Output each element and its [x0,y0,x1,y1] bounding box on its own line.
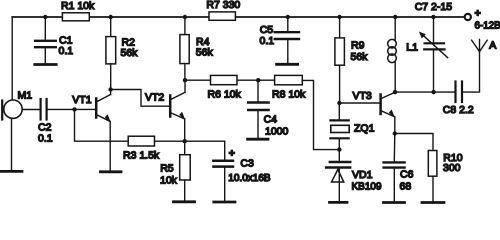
power terminal [465,8,500,32]
ground (C5) [277,63,298,66]
svg-text:0.1: 0.1 [260,35,275,47]
resistor R7 [206,0,240,20]
wire left feed to microphone [11,17,13,100]
resistor R10 [395,134,463,202]
ground (R5) [174,200,195,203]
resistor R4 [180,17,214,80]
node tank/VT3 collector junction [393,90,397,94]
wire microphone to ground [11,119,13,171]
node junction C1/rail [43,15,47,19]
resistor R1 [61,0,95,21]
svg-text:VD1: VD1 [352,169,373,181]
node emitter/C6/R10 junction [393,131,397,135]
antenna A [472,39,497,51]
svg-text:0.1: 0.1 [59,45,74,57]
svg-text:68: 68 [400,181,412,193]
transistor VT1 [72,90,111,122]
capacitor C3 [213,141,270,201]
capacitor C8 [443,82,474,117]
svg-text:R3 1.5k: R3 1.5k [123,150,160,162]
wire top supply rail [12,16,464,18]
wire VT3 emitter down [394,117,396,134]
wire VT1 collector to VT2 base [111,90,169,107]
ground (C4) [248,138,268,141]
svg-text:R1 10k: R1 10k [61,0,95,12]
svg-text:+: + [475,8,481,20]
node junction L1/rail [393,15,397,19]
microphone M1 [2,90,32,120]
svg-text:R9: R9 [351,40,365,52]
capacitor C1 [35,17,73,63]
svg-text:R7 330: R7 330 [206,0,240,11]
node VT3 base junction [337,101,341,105]
svg-text:M1: M1 [18,90,33,102]
resistor R8 [272,75,306,100]
capacitor C4 [248,80,288,138]
svg-text:R5: R5 [160,163,174,175]
wire microphone output [22,109,39,111]
svg-text:A: A [489,40,496,52]
ground (C1) [35,63,56,66]
varicap diode VD1 KB109 [326,150,382,201]
svg-text:ZQ1: ZQ1 [354,123,375,135]
ground (R10) [422,201,444,204]
svg-text:VT3: VT3 [353,90,372,102]
svg-text:R8 10k: R8 10k [272,89,306,101]
capacitor C5 [260,17,300,63]
wire C2 to VT1 base [48,108,95,110]
svg-text:300: 300 [443,162,461,174]
svg-text:VT1: VT1 [72,94,91,106]
svg-text:R6 10k: R6 10k [208,89,242,101]
node junction R9/rail [337,15,341,19]
svg-text:10.0x16B: 10.0x16B [228,173,271,184]
node VT1 collector junction [108,87,112,91]
wire VT2 collector node to R6 [185,79,211,81]
transistor VT2 [145,82,185,120]
svg-text:VT2: VT2 [145,92,164,104]
svg-text:KB109: KB109 [352,182,382,193]
wire VT3 base [339,102,379,104]
wire VT1 emitter to ground [109,122,111,171]
svg-text:56k: 56k [196,47,214,59]
transistor VT3 [353,90,396,118]
node VT1 base junction [72,107,76,111]
svg-text:L1: L1 [406,42,418,54]
svg-text:56k: 56k [351,51,369,63]
wire R6 to R8 [237,79,275,81]
crystal ZQ1 [330,103,374,150]
capacitor C2 [38,99,53,145]
resistor R6 [208,75,242,100]
wire C8 to antenna [463,52,480,93]
resistor R5 [160,141,190,200]
wire R3 to emitter node and C3 [155,140,225,142]
node varicap junction [337,147,341,151]
resistor R2 [106,17,138,90]
wire tank bottom [395,91,454,93]
node emitter/R3/R5 junction [183,139,187,143]
ground (C3) [214,201,235,204]
svg-text:C6: C6 [400,169,414,181]
svg-text:1000: 1000 [265,126,289,138]
node junction R2/rail [109,15,113,19]
node junction C5/rail [286,15,290,19]
resistor R9 [335,17,368,103]
node junction C4 [256,78,260,82]
inductor L1 [388,17,418,92]
resistor R3 [123,136,160,161]
node junction C7/rail [431,15,435,19]
svg-text:6-12B: 6-12B [475,21,500,32]
svg-text:C4: C4 [264,114,278,126]
node VT2 collector junction [183,78,187,82]
ground (M1) [1,170,22,173]
svg-text:10k: 10k [160,175,178,187]
svg-text:C8 2.2: C8 2.2 [443,104,474,116]
wire VT2 emitter down [184,119,186,141]
node trimmer bottom junction [431,90,435,94]
svg-text:56k: 56k [121,47,139,59]
ground (VT1 emitter) [101,170,122,173]
ground (VD1) [330,201,348,204]
svg-text:0.1: 0.1 [38,133,53,145]
ground (C6) [384,201,405,204]
svg-text:C3: C3 [240,158,254,170]
svg-text:+: + [229,147,235,159]
capacitor C6 [384,134,414,202]
wire bias feedback (node to R3) [75,109,129,141]
trimmer capacitor C7 [415,1,453,92]
wire R8 to varicap node [302,80,339,149]
svg-text:C7 2-15: C7 2-15 [415,1,453,13]
node junction R4/rail [183,15,187,19]
